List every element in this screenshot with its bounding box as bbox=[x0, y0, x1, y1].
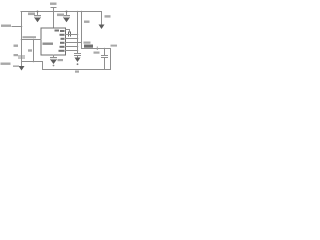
label IC part number bbox=[43, 43, 54, 45]
label PGND bbox=[1, 63, 11, 65]
ground arrow bottom left bbox=[19, 66, 25, 71]
wire bottom gnd rail bbox=[43, 69, 111, 71]
wire BST down bbox=[69, 30, 71, 33]
wire left pin FB bbox=[22, 39, 42, 41]
label PVIN bbox=[1, 25, 11, 27]
wire VIN entry bbox=[12, 26, 22, 28]
pin stub EN right bbox=[66, 38, 78, 40]
wire output right drop bbox=[110, 49, 112, 70]
ground arrow under C2 bbox=[64, 18, 70, 22]
IC U1 body bbox=[41, 28, 66, 55]
pin label EN bbox=[61, 38, 65, 40]
label C4 bbox=[14, 54, 19, 56]
label VOUT bbox=[111, 45, 118, 47]
tick on output wire bbox=[97, 47, 98, 51]
wire right rail end drop bbox=[101, 12, 103, 25]
gnd tail dot under IC bbox=[53, 65, 55, 67]
label below rail2 bbox=[75, 71, 79, 73]
pin label VCC bbox=[60, 46, 65, 48]
inductor L1 bbox=[84, 45, 93, 48]
capacitor C2 bbox=[64, 12, 70, 18]
wire output bbox=[82, 48, 111, 50]
wire vertical bus B x81 to SW node bbox=[81, 12, 83, 49]
capacitor C6 boot bbox=[69, 32, 71, 36]
label right gnd bbox=[105, 15, 111, 17]
gnd tail dot bbox=[77, 63, 79, 65]
pin stub AGND bbox=[66, 50, 78, 52]
pin label SW bbox=[60, 42, 65, 44]
ground arrow under C3 bbox=[75, 58, 81, 63]
wire bottom left rail bbox=[22, 61, 43, 63]
wire VDD pin drop from rail to IC top bbox=[53, 12, 55, 29]
capacitor C1 bbox=[35, 12, 41, 18]
pin label BST bbox=[60, 30, 65, 32]
capacitor C7 output bbox=[102, 49, 108, 70]
capacitor C3 on bus A bbox=[75, 54, 81, 58]
label L1 bbox=[84, 42, 91, 44]
wire divider branch x33 bbox=[33, 40, 35, 62]
ground arrow under IC bbox=[51, 60, 57, 64]
label Cout bbox=[94, 52, 100, 54]
pin label VIN bbox=[60, 34, 65, 36]
label R1 bbox=[14, 45, 19, 47]
ground arrow under C1 bbox=[35, 18, 41, 22]
label R2 bbox=[28, 49, 32, 51]
pin stub BST bbox=[66, 29, 70, 31]
label C2 bbox=[57, 14, 64, 17]
pin stub VIN right bbox=[66, 34, 78, 36]
wire left VIN bus bbox=[21, 12, 23, 62]
label FB wire bbox=[23, 36, 37, 38]
label VIN supply bbox=[50, 3, 57, 5]
label GND pin bbox=[58, 59, 64, 61]
IC inner labels bbox=[43, 30, 65, 52]
pin label AGND bbox=[59, 50, 65, 52]
wire vertical bus A x77 bbox=[77, 12, 79, 54]
pin label top VDD bbox=[55, 30, 60, 32]
pin stub SW bbox=[66, 42, 82, 44]
pin stub VCC bbox=[66, 46, 78, 48]
wire gnd rail step bbox=[42, 62, 44, 70]
wire gnd stub below rail bbox=[21, 62, 23, 67]
wire top VIN rail bbox=[21, 11, 101, 13]
junction dots bbox=[21, 11, 106, 63]
capacitor C4 on left bus bbox=[19, 56, 25, 58]
label C1 bbox=[28, 13, 35, 16]
text smudges bbox=[1, 3, 118, 73]
ground arrow right bbox=[99, 25, 105, 30]
label SW net bbox=[84, 21, 90, 23]
IC ground pin stub bbox=[53, 55, 55, 58]
capacitor C5 under IC bbox=[51, 58, 57, 60]
label arrow dash bbox=[13, 66, 19, 67]
supply symbol VIN bbox=[51, 8, 56, 12]
